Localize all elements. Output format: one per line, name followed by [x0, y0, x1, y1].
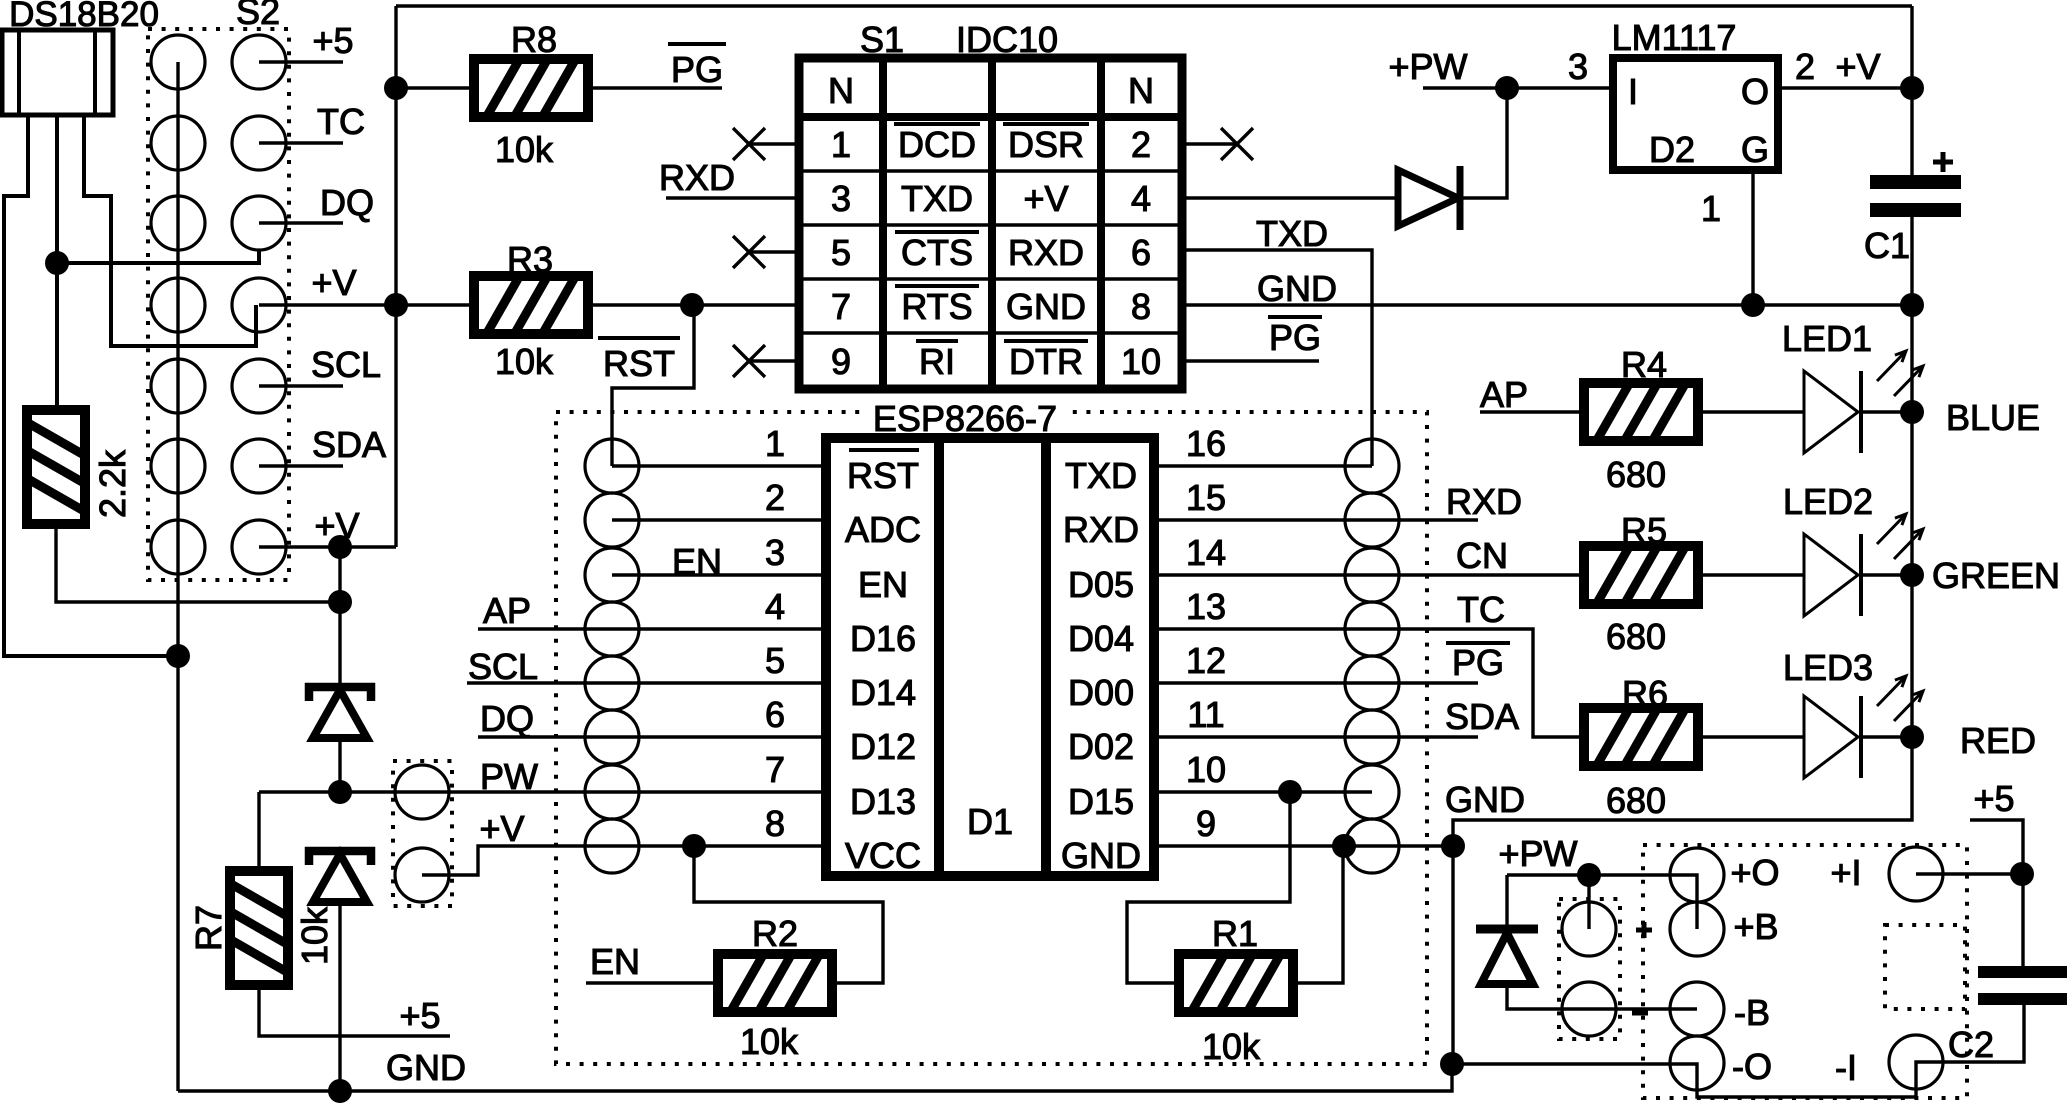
junction DQ/DS18B20: [45, 251, 69, 275]
svg-text:DS18B20: DS18B20: [9, 0, 159, 34]
wire S2 +V bottom row: [259, 545, 396, 548]
junction VCC/R2: [682, 834, 706, 858]
svg-text:D14: D14: [850, 672, 916, 713]
svg-text:6: 6: [1131, 232, 1151, 273]
resistor R8: [473, 58, 589, 118]
wire S2 +5 stub: [259, 60, 343, 63]
wire -O line: [1453, 1004, 2024, 1097]
wire DS18B20 pin1 (GND leg) to ground bus: [4, 115, 176, 656]
junction LED2/rail: [1900, 563, 1924, 587]
svg-text:7: 7: [765, 749, 785, 790]
svg-text:TXD: TXD: [1065, 455, 1137, 496]
net label PG (overline): [1268, 315, 1322, 319]
wire S2 TC stub: [259, 141, 343, 144]
wire D15 to R1: [1127, 792, 1290, 983]
svg-text:C1: C1: [1864, 225, 1910, 266]
wire LM1117 G to GND line: [1751, 170, 1754, 305]
svg-text:CTS: CTS: [901, 232, 973, 273]
diode D1 (serial +V): [1398, 166, 1460, 230]
svg-text:GND: GND: [1006, 286, 1086, 327]
svg-text:10k: 10k: [495, 129, 554, 170]
svg-text:+5: +5: [1973, 778, 2014, 819]
ESP module pad right 12: [1345, 656, 1399, 710]
junction GND rail right: [1440, 1052, 1464, 1076]
svg-text:R2: R2: [752, 913, 798, 954]
wire S2 DQ stub: [259, 221, 343, 224]
S2 pad left row4: [151, 278, 205, 332]
svg-text:16: 16: [1186, 423, 1226, 464]
junction ground bus: [166, 644, 190, 668]
svg-text:6: 6: [765, 694, 785, 735]
ESP module pad right 11: [1345, 710, 1399, 764]
svg-text:D1: D1: [967, 801, 1013, 842]
resistor R5: [1583, 545, 1699, 605]
svg-text:10: 10: [1186, 749, 1226, 790]
svg-text:EN: EN: [858, 564, 908, 605]
svg-text:5: 5: [831, 232, 851, 273]
resistor R1: [1178, 953, 1294, 1013]
resistor R3: [473, 275, 589, 335]
chip pin name RST: [849, 448, 919, 452]
pad - battery: [1562, 982, 1616, 1036]
wire GND bottom rail: [178, 1064, 1452, 1091]
pad +O: [1670, 848, 1724, 902]
svg-text:O: O: [1741, 71, 1769, 112]
wire R8 left lead: [396, 86, 473, 89]
svg-text:GND: GND: [1445, 779, 1525, 820]
wire ESP pin7 PW line: [259, 790, 826, 793]
PW pad: [395, 765, 449, 819]
svg-text:10k: 10k: [294, 906, 335, 965]
wire ESP pin5 SCL: [467, 681, 826, 684]
junction +V/zener chain: [328, 535, 352, 559]
svg-text:BLUE: BLUE: [1946, 397, 2040, 438]
svg-text:2: 2: [1131, 124, 1151, 165]
IDC signal DTR: [1004, 339, 1088, 343]
connector S2 outline (dotted): [148, 29, 289, 580]
svg-text:+I: +I: [1830, 852, 1861, 893]
svg-text:G: G: [1741, 129, 1769, 170]
svg-text:TC: TC: [317, 101, 365, 142]
svg-text:R1: R1: [1212, 913, 1258, 954]
svg-text:-O: -O: [1732, 1046, 1772, 1087]
svg-text:LED1: LED1: [1782, 318, 1872, 359]
ESP module pad left 6: [585, 710, 639, 764]
ESP module pad right 16: [1345, 439, 1399, 493]
junction +V/R3: [384, 293, 408, 317]
wire + pad drop: [1587, 875, 1590, 929]
svg-text:CN: CN: [1456, 535, 1508, 576]
wire ESP pin13 TC to R6: [1154, 629, 1584, 737]
DS18B20 sensor body: [2, 30, 113, 115]
svg-text:I: I: [1628, 71, 1638, 112]
svg-text:PG: PG: [1452, 642, 1504, 683]
S2 pad right row5 (SCL): [232, 359, 286, 413]
svg-text:R6: R6: [1622, 673, 1668, 714]
S2 pad left row3: [151, 196, 205, 250]
junction +PW/diode: [1495, 76, 1519, 100]
wire R7 bottom to +5 stub: [259, 986, 450, 1036]
svg-text:10k: 10k: [740, 1021, 799, 1062]
ESP module pad right 10: [1345, 765, 1399, 819]
svg-text:13: 13: [1186, 586, 1226, 627]
svg-text:ADC: ADC: [845, 509, 921, 550]
wire ESP pin3 EN: [612, 573, 826, 576]
wire ESP pin10 D15: [1154, 790, 1372, 793]
svg-text:S1: S1: [860, 19, 904, 60]
svg-text:3: 3: [765, 532, 785, 573]
wire between zeners: [338, 740, 341, 792]
regulator U1 LM1117: [1613, 58, 1778, 170]
ESP module pad left 3: [585, 548, 639, 602]
svg-text:5: 5: [765, 640, 785, 681]
pad -O: [1670, 1036, 1724, 1090]
no-connect X pin1: [749, 142, 799, 145]
wire R7 top to PW line: [257, 792, 260, 870]
inner dotted square: [1885, 925, 1965, 1009]
wire R1 to GND: [1294, 846, 1343, 983]
svg-text:C2: C2: [1948, 1024, 1994, 1065]
wire RXD to IDC pin3: [666, 196, 799, 199]
svg-text:DSR: DSR: [1008, 124, 1084, 165]
svg-text:LED3: LED3: [1783, 647, 1873, 688]
svg-text:4: 4: [765, 586, 785, 627]
junction R8/+V rail: [384, 76, 408, 100]
wire IDC pin10 PG stub: [1182, 359, 1319, 362]
svg-text:RXD: RXD: [659, 157, 735, 198]
wire zener chain to ground: [338, 904, 341, 1091]
resistor R7: [229, 870, 289, 986]
svg-text:R7: R7: [188, 905, 229, 951]
svg-text:14: 14: [1186, 532, 1226, 573]
svg-text:D12: D12: [850, 726, 916, 767]
wire ESP pin15 RXD stub: [1154, 518, 1478, 521]
svg-text:PG: PG: [1269, 317, 1321, 358]
resistor 2.2k: [26, 409, 86, 525]
svg-text:SCL: SCL: [311, 344, 381, 385]
wire S2 SDA stub: [259, 464, 343, 467]
svg-text:LED2: LED2: [1783, 481, 1873, 522]
pad +B: [1670, 902, 1724, 956]
S2 pad left row5: [151, 359, 205, 413]
ESP module pad right 14: [1345, 548, 1399, 602]
wire +V right rail lower to GND corner: [1453, 215, 1912, 1064]
svg-text:DQ: DQ: [480, 698, 534, 739]
svg-text:ESP8266-7: ESP8266-7: [873, 398, 1057, 439]
wire zener chain top: [338, 547, 341, 687]
wire ESP pin14 CN to R5: [1154, 573, 1584, 576]
svg-text:+PW: +PW: [1388, 46, 1467, 87]
LED LED2: [1804, 514, 1923, 616]
LED LED1: [1804, 351, 1923, 453]
wire ESP pin16: [1154, 464, 1372, 467]
net label RST (overline): [598, 336, 680, 340]
capacitor C1 polarity +: [1933, 152, 1953, 172]
svg-text:R8: R8: [511, 19, 557, 60]
wire ESP pin9 GND: [1154, 844, 1453, 847]
svg-text:EN: EN: [590, 941, 640, 982]
svg-text:D2: D2: [1649, 129, 1695, 170]
svg-text:11: 11: [1187, 694, 1224, 735]
svg-text:D04: D04: [1068, 618, 1134, 659]
svg-text:TXD: TXD: [901, 178, 973, 219]
ESP module pad right 9: [1345, 819, 1399, 873]
net label PG (overline): [668, 42, 726, 46]
svg-text:15: 15: [1186, 477, 1226, 518]
svg-text:-I: -I: [1835, 1047, 1857, 1088]
svg-text:1: 1: [831, 124, 851, 165]
wire LED1 to rail: [1862, 410, 1912, 413]
svg-text:1: 1: [765, 423, 785, 464]
svg-text:SDA: SDA: [312, 424, 386, 465]
svg-text:+V: +V: [1835, 46, 1880, 87]
diode zener D4: [309, 851, 371, 902]
svg-text:12: 12: [1186, 640, 1226, 681]
svg-text:S2: S2: [236, 0, 280, 32]
S2 pad left row1: [151, 35, 205, 89]
wire R4 to LED1: [1699, 410, 1804, 413]
junction 2.2k/zener chain: [328, 590, 352, 614]
IDC signal DCD: [894, 122, 980, 126]
svg-text:+V: +V: [311, 262, 356, 303]
svg-text:1: 1: [1701, 188, 1721, 229]
S2 pad left row6: [151, 439, 205, 493]
svg-text:8: 8: [1131, 286, 1151, 327]
chip D1 body: [826, 438, 1154, 876]
svg-text:RXD: RXD: [1063, 509, 1139, 550]
IDC signal RTS: [895, 284, 979, 288]
wire +V right rail upper: [1910, 6, 1913, 177]
no-connect X pin2: [1182, 142, 1237, 145]
svg-text:10k: 10k: [1202, 1026, 1261, 1067]
svg-text:3: 3: [1568, 46, 1588, 87]
svg-text:GND: GND: [1061, 835, 1141, 876]
svg-text:N: N: [828, 70, 854, 111]
ESP module pad left 7: [585, 765, 639, 819]
wire +PW to +O/+B: [1507, 875, 1697, 929]
svg-text:GND: GND: [386, 1047, 466, 1088]
svg-text:10: 10: [1121, 341, 1161, 382]
svg-text:SDA: SDA: [1445, 696, 1519, 737]
wire R5 to LED2: [1699, 573, 1804, 576]
svg-text:+PW: +PW: [1498, 833, 1577, 874]
svg-text:8: 8: [765, 803, 785, 844]
svg-text:+O: +O: [1730, 852, 1779, 893]
wire AP to R4: [1480, 410, 1584, 413]
connector S1 IDC10 table: [799, 58, 1182, 389]
wire +V vertical: [394, 6, 397, 547]
wire ESP pin1: [612, 464, 826, 467]
pads outline (dotted): [393, 761, 452, 906]
ESP module pad left 4: [585, 602, 639, 656]
wire LED3 to rail: [1862, 735, 1912, 738]
svg-text:D15: D15: [1068, 781, 1134, 822]
wire diode cathode to +PW: [1462, 88, 1507, 198]
wire ESP pin11 SDA stub: [1154, 735, 1478, 738]
capacitor C2: [1978, 966, 2067, 1005]
battery pads outline (dotted): [1559, 899, 1620, 1039]
wire +PW to LM1117 input: [1423, 86, 1613, 89]
junction zener chain / PW line: [328, 780, 352, 804]
svg-text:-B: -B: [1734, 992, 1770, 1033]
svg-text:RI: RI: [919, 341, 955, 382]
svg-text:D00: D00: [1068, 672, 1134, 713]
svg-text:9: 9: [831, 341, 851, 382]
junction G/GND line: [1741, 293, 1765, 317]
wire LED2 to rail: [1862, 573, 1912, 576]
svg-text:PW: PW: [480, 756, 538, 797]
junction LED1/rail: [1900, 400, 1924, 424]
svg-text:DCD: DCD: [898, 124, 976, 165]
wire +V row to R3: [259, 303, 473, 306]
wire RST to ESP pin1: [612, 305, 694, 466]
svg-text:2: 2: [1795, 46, 1815, 87]
wire ESP pin4 AP: [478, 627, 826, 630]
svg-text:TC: TC: [1457, 589, 1505, 630]
junction +PW/+ pad: [1577, 863, 1601, 887]
ESP module pad left 1: [585, 439, 639, 493]
svg-text:+5: +5: [312, 20, 353, 61]
svg-text:680: 680: [1606, 454, 1666, 495]
S2 pad right row4 (+V): [232, 278, 286, 332]
svg-text:7: 7: [831, 286, 851, 327]
resistor R4: [1583, 382, 1699, 442]
svg-text:GREEN: GREEN: [1932, 555, 2060, 596]
+V pad: [395, 848, 449, 902]
polarity label +: [1636, 922, 1652, 938]
IDC signal DSR: [1003, 122, 1089, 126]
junction GND line/right rail: [1900, 293, 1924, 317]
svg-text:GND: GND: [1257, 268, 1337, 309]
wire DS18B20 pin3 (VDD leg) to S2 +V pin: [84, 115, 256, 346]
svg-text:3: 3: [831, 178, 851, 219]
junction LED3/rail: [1900, 725, 1924, 749]
ESP module pad left 2: [585, 493, 639, 547]
svg-text:9: 9: [1196, 803, 1216, 844]
svg-text:N: N: [1128, 70, 1154, 111]
wire S2 SCL stub: [259, 384, 343, 387]
svg-text:DTR: DTR: [1009, 341, 1083, 382]
wire R6 to LED3: [1699, 735, 1804, 738]
svg-text:EN: EN: [672, 541, 722, 582]
svg-text:+B: +B: [1733, 906, 1778, 947]
wire VCC to R2: [694, 846, 883, 983]
junction GND wire/right vertical: [1441, 834, 1465, 858]
pad + battery: [1562, 902, 1616, 956]
wire +I to C2 node: [1916, 872, 2022, 875]
svg-text:+5: +5: [399, 995, 440, 1036]
svg-text:R3: R3: [507, 239, 553, 280]
wire C2 top to +5 stub: [1970, 820, 2023, 966]
svg-text:VCC: VCC: [845, 835, 921, 876]
svg-text:2: 2: [765, 477, 785, 518]
resistor R2: [717, 953, 833, 1013]
svg-text:R5: R5: [1621, 510, 1667, 551]
wire top +V rail: [396, 4, 1912, 7]
wire diode top: [1505, 875, 1508, 925]
S2 pad right row3 (DQ): [232, 196, 286, 250]
pad +I: [1889, 847, 1943, 901]
power block outline (dotted): [1643, 845, 1967, 1098]
S2 pad right row1 (+5): [232, 35, 286, 89]
wire EN to R2: [586, 981, 717, 984]
wire R3 right lead to IDC pin7: [589, 303, 799, 306]
polarity label -: [1632, 1011, 1648, 1016]
wire R8 right lead to PG stub: [589, 86, 722, 89]
S2 pad left row2: [151, 116, 205, 170]
svg-text:RTS: RTS: [901, 286, 972, 327]
svg-text:IDC10: IDC10: [956, 19, 1058, 60]
LED LED3: [1804, 676, 1923, 778]
wire ESP pin2: [612, 518, 826, 521]
svg-text:DQ: DQ: [320, 182, 374, 223]
net label PG (overline): [1446, 641, 1510, 645]
svg-text:2.2k: 2.2k: [92, 449, 133, 518]
wire IDC pin4 to diode D1 anode: [1182, 196, 1398, 199]
svg-text:4: 4: [1131, 178, 1151, 219]
module ESP8266-7 outline (dotted): [556, 412, 1427, 1064]
svg-text:TXD: TXD: [1256, 213, 1328, 254]
svg-text:RXD: RXD: [1008, 232, 1084, 273]
svg-text:RST: RST: [603, 343, 675, 384]
svg-text:LM1117: LM1117: [1612, 17, 1737, 58]
ESP module pad left 8: [585, 819, 639, 873]
svg-text:D16: D16: [850, 618, 916, 659]
pad -B: [1670, 982, 1724, 1036]
wire ESP pin12 PG stub: [1154, 681, 1478, 684]
junction zener chain / GND rail: [328, 1079, 352, 1103]
diode D5 battery: [1476, 929, 1538, 984]
wire IDC pin8 GND line: [1182, 303, 1912, 306]
svg-text:10k: 10k: [495, 341, 554, 382]
junction R1/GND: [1332, 834, 1356, 858]
wire IDC pin6 TXD to ESP pin16: [1182, 250, 1372, 466]
ESP module pad right 15: [1345, 493, 1399, 547]
IDC signal CTS: [895, 230, 979, 234]
wire 2.2k bottom to zener chain: [56, 525, 340, 602]
no-connect X pin5: [749, 250, 799, 253]
svg-text:D13: D13: [850, 781, 916, 822]
svg-text:AP: AP: [483, 590, 531, 631]
svg-text:D02: D02: [1068, 726, 1134, 767]
S2 pad right row2 (TC): [232, 116, 286, 170]
capacitor C1: [1870, 175, 1961, 217]
no-connect X pin9: [749, 359, 799, 362]
wire S2 DQ pad to DS18B20 DQ leg: [57, 250, 259, 263]
wire diode anode to -B: [1507, 984, 1697, 1009]
pad -I: [1889, 1035, 1943, 1089]
junction R3/RST: [680, 293, 704, 317]
svg-text:D05: D05: [1068, 564, 1134, 605]
svg-text:SCL: SCL: [468, 646, 538, 687]
S2 pad right row6 (SDA): [232, 439, 286, 493]
svg-text:RST: RST: [847, 455, 919, 496]
svg-text:680: 680: [1606, 780, 1666, 821]
junction LM1117 out/+V rail: [1900, 76, 1924, 100]
svg-text:+V: +V: [1023, 178, 1068, 219]
wire LM1117 output to +V rail: [1778, 86, 1912, 89]
svg-text:RXD: RXD: [1446, 481, 1522, 522]
svg-text:RED: RED: [1960, 720, 2036, 761]
diode zener D3: [309, 687, 371, 738]
S2 pad right row7 (+V): [232, 520, 286, 574]
wire S2 ground column: [176, 62, 179, 1091]
ESP module pad right 13: [1345, 602, 1399, 656]
resistor R6: [1583, 707, 1699, 767]
svg-text:+V: +V: [479, 808, 524, 849]
svg-text:R4: R4: [1621, 344, 1667, 385]
wire ESP pin8 +V jog: [422, 846, 826, 875]
